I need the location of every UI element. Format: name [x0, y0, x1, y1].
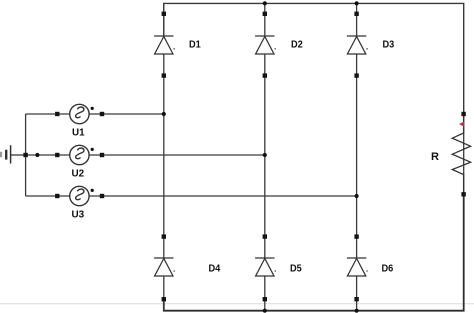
column 2 wire [264, 3, 266, 310]
diode D2 [255, 36, 276, 54]
svg-text:D4: D4 [209, 264, 221, 275]
wire phase C (U3 row) [26, 195, 357, 197]
node dot phase C col3 [355, 194, 359, 198]
svg-text:D5: D5 [290, 264, 302, 275]
svg-text:U2: U2 [72, 169, 85, 180]
node dot top bus col2 [263, 1, 267, 5]
resistor R [452, 116, 470, 192]
node dot phase B col2 [263, 153, 267, 157]
AC source U3 [70, 186, 94, 205]
svg-text:D1: D1 [189, 40, 201, 51]
svg-text:D2: D2 [291, 40, 303, 51]
wire phase B (U2 row) [26, 154, 265, 156]
left common rail wire [25, 114, 27, 196]
bottom bus wire [164, 196, 464, 311]
svg-text:U3: U3 [72, 210, 85, 221]
terminal pins: diode top row anode/cathode pins [162, 12, 359, 78]
AC source U1 [70, 104, 94, 123]
svg-text:U1: U1 [72, 128, 85, 139]
diode D1 [154, 36, 175, 54]
top bus wire [164, 3, 464, 112]
diode D6 [347, 258, 368, 276]
terminal pins: source terminals [55, 112, 104, 198]
terminal pin: ground junction [23, 153, 27, 157]
column 1 wire [163, 3, 165, 310]
column 3 wire [356, 3, 358, 310]
terminal pins: diode bottom row [162, 234, 359, 301]
AC source U2 [70, 145, 94, 164]
diode D4 [154, 258, 175, 276]
node dot bottom bus col3 [355, 309, 359, 313]
node dot top bus col3 [355, 1, 359, 5]
wire phase A (U1 row) [26, 113, 164, 115]
node dot phase A col1 [162, 112, 166, 116]
svg-text:R: R [431, 151, 439, 163]
right rail wire [463, 116, 465, 196]
svg-text:D3: D3 [383, 40, 395, 51]
svg-text:D6: D6 [382, 264, 394, 275]
node dot bottom bus col2 [263, 309, 267, 313]
ground battery symbol [1, 145, 26, 163]
terminal pins: resistor [461, 112, 465, 197]
red current arrow [459, 121, 464, 127]
faint page boundary line [0, 303, 474, 305]
node dot ground branch [35, 153, 39, 157]
diode D5 [255, 258, 276, 276]
diode D3 [347, 36, 368, 54]
